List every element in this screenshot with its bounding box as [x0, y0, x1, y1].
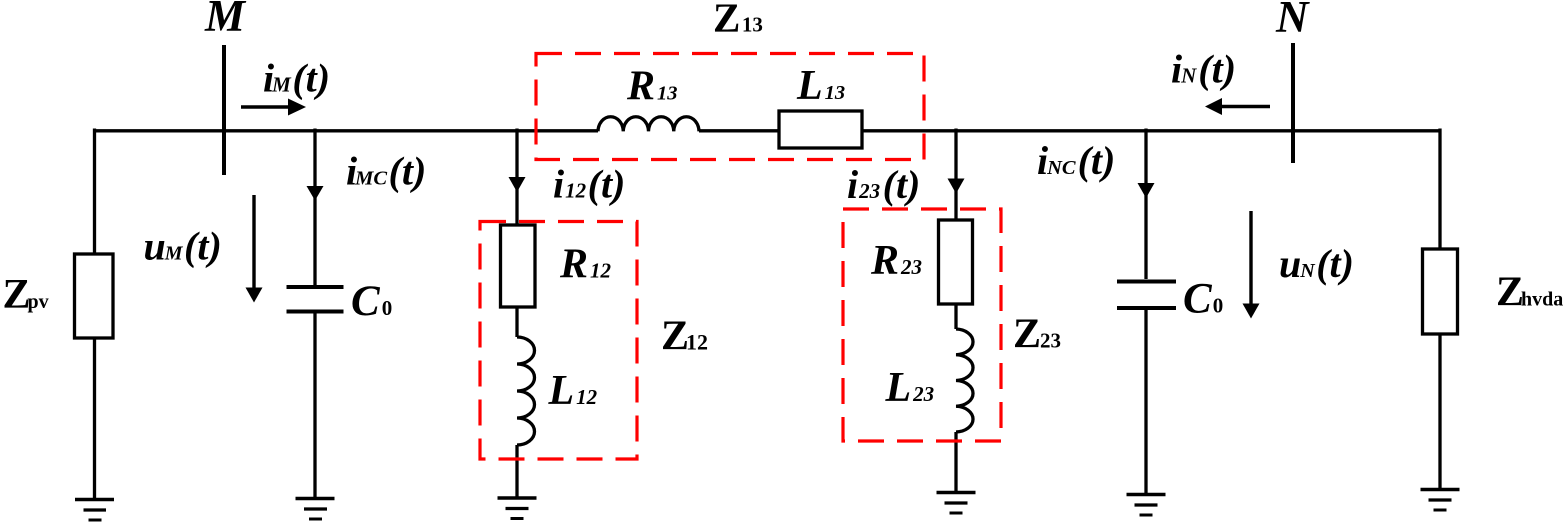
wire Zhvda branch lower: [1438, 334, 1441, 488]
dashed box Z13: [536, 54, 924, 160]
svg-text:uM(t): uM(t): [144, 224, 222, 269]
arrow u_M shaft: [252, 195, 255, 288]
node N bar: [1291, 43, 1295, 163]
wire capacitor C0 right branch lower: [1144, 310, 1147, 494]
svg-text:R23: R23: [870, 238, 922, 284]
svg-text:iMC(t): iMC(t): [346, 149, 426, 194]
arrow i_23 head: [948, 179, 965, 194]
capacitor C0 left plates: [287, 287, 344, 312]
arrow i_M shaft: [241, 105, 292, 108]
wire Zpv branch upper: [93, 129, 96, 255]
arrow i_12 head: [509, 177, 526, 192]
wire capacitor C0 left branch upper: [313, 129, 316, 286]
ground G4: [937, 493, 976, 514]
ground G1: [75, 500, 114, 521]
arrow i_N head: [1205, 98, 1222, 115]
wire branch 23 upper: [954, 129, 957, 221]
svg-text:iN(t): iN(t): [1171, 47, 1236, 92]
svg-text:M: M: [204, 0, 247, 41]
wire between R12 and L12: [515, 307, 518, 337]
impedance Zhvda box: [1423, 249, 1458, 334]
svg-text:L12: L12: [548, 368, 598, 414]
svg-text:R13: R13: [626, 64, 678, 110]
wire bus right segment: [699, 129, 1440, 132]
ground G5: [1127, 495, 1166, 516]
ground G3: [498, 498, 537, 519]
capacitor C0 right plates: [1117, 282, 1176, 309]
resistor R13 (drawn as coil): [598, 117, 699, 132]
wire branch 12 lower: [515, 445, 518, 497]
wire branch 12 upper: [515, 129, 518, 226]
svg-text:i23(t): i23(t): [847, 162, 920, 207]
svg-text:Z13: Z13: [713, 0, 763, 41]
arrow u_N shaft: [1249, 211, 1252, 304]
svg-text:Zhvda: Zhvda: [1496, 270, 1563, 316]
wire bus left segment: [95, 129, 599, 132]
wire branch 23 lower: [954, 432, 957, 491]
arrow i_M head: [288, 99, 306, 116]
svg-text:Zpv: Zpv: [3, 272, 49, 318]
svg-text:Z23: Z23: [1013, 312, 1061, 358]
inductor L23 coil: [956, 329, 973, 432]
svg-text:iM(t): iM(t): [263, 56, 330, 101]
dashed box Z23: [843, 209, 1001, 441]
resistor R23 box: [939, 220, 973, 304]
arrow i_NC head: [1138, 183, 1155, 198]
svg-text:L13: L13: [796, 63, 845, 109]
ground G6: [1421, 490, 1460, 511]
svg-text:i12(t): i12(t): [553, 162, 625, 207]
svg-text:C0: C0: [351, 278, 392, 325]
arrow i_N shaft: [1222, 105, 1270, 108]
resistor R12 box: [501, 225, 536, 307]
node M bar: [222, 45, 226, 175]
wire between R23 and L23: [954, 304, 957, 329]
svg-text:uN(t): uN(t): [1279, 241, 1354, 286]
ground G2: [296, 499, 335, 520]
wire Zpv branch lower: [93, 338, 96, 498]
impedance Zpv box: [75, 254, 114, 338]
arrow u_N head: [1243, 304, 1260, 319]
wire capacitor C0 right branch upper: [1144, 129, 1147, 280]
arrow i_MC head: [307, 186, 324, 201]
svg-text:R12: R12: [559, 242, 612, 288]
svg-text:C0: C0: [1183, 276, 1223, 323]
inductor L13 (drawn as box): [779, 111, 862, 148]
wire Zhvda branch upper: [1438, 129, 1441, 250]
svg-text:iNC(t): iNC(t): [1037, 138, 1115, 183]
wire capacitor C0 left branch lower: [313, 314, 316, 498]
svg-text:N: N: [1275, 0, 1310, 42]
arrow u_M head: [246, 288, 263, 303]
svg-text:L23: L23: [885, 365, 935, 411]
svg-text:Z12: Z12: [661, 314, 708, 360]
dashed box Z12: [480, 222, 637, 460]
inductor L12 coil: [517, 337, 535, 445]
